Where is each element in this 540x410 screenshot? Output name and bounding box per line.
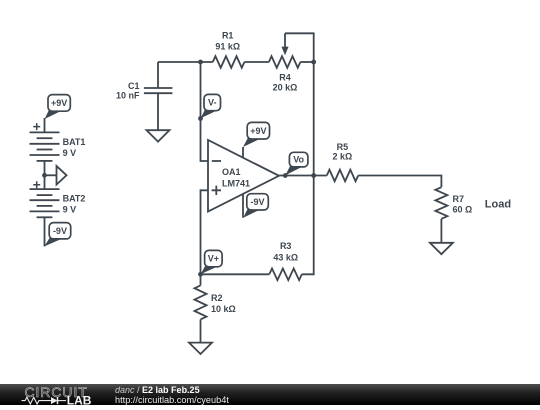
svg-text:BAT2: BAT2 bbox=[63, 194, 86, 204]
svg-text:R5: R5 bbox=[337, 142, 349, 152]
node top-left junction bbox=[198, 60, 203, 65]
wire R2 bottom to ground bbox=[200, 320, 202, 343]
label C1 value 10 nF bbox=[116, 90, 140, 100]
wire R4 wiper to right side bbox=[285, 33, 314, 62]
op-amp OA1 triangle bbox=[208, 140, 279, 212]
label C1 bbox=[128, 81, 140, 91]
svg-text:Vo: Vo bbox=[293, 155, 304, 165]
svg-text:R1: R1 bbox=[222, 31, 234, 41]
ground (under R7) bbox=[430, 243, 453, 254]
label OA1 bbox=[222, 167, 241, 177]
flag -9V (battery negative net) bbox=[44, 223, 70, 247]
label R4 bbox=[279, 73, 291, 83]
resistor R7 bbox=[435, 187, 447, 219]
wire op-amp output to R5 bbox=[279, 175, 327, 177]
label BAT1 value 9 V bbox=[63, 148, 77, 158]
svg-text:43 kΩ: 43 kΩ bbox=[273, 252, 298, 262]
wire top to C1 bbox=[157, 62, 159, 88]
svg-text:9 V: 9 V bbox=[63, 204, 77, 214]
resistor R2 bbox=[195, 285, 207, 319]
resistor R5 bbox=[327, 170, 358, 182]
svg-text:R2: R2 bbox=[211, 293, 223, 303]
op-amp inverting input symbol bbox=[212, 160, 221, 162]
wire C1 to ground bbox=[157, 93, 159, 130]
svg-text:91 kΩ: 91 kΩ bbox=[215, 41, 240, 51]
svg-text:10 nF: 10 nF bbox=[116, 90, 140, 100]
wire bottom horizontal (V+ node to R3) bbox=[201, 273, 270, 275]
capacitor C1 bbox=[144, 88, 173, 93]
wire R7 to ground bbox=[440, 219, 442, 243]
node V- tap bbox=[198, 116, 203, 121]
wire op-amp positive supply stub bbox=[242, 147, 244, 158]
svg-text:-9V: -9V bbox=[53, 226, 67, 236]
battery BAT1 bbox=[30, 123, 60, 161]
label LM741 bbox=[222, 178, 250, 188]
label R3 bbox=[280, 241, 292, 251]
op-amp non-inverting input symbol bbox=[212, 186, 221, 195]
label R2 value 10 k&#937; bbox=[211, 304, 236, 314]
label R1 value 91 k&#937; bbox=[215, 41, 240, 51]
footer credits line 1 bbox=[115, 385, 200, 395]
wire R4 to right junction bbox=[300, 61, 313, 63]
flag +9V (op-amp positive supply) bbox=[243, 122, 270, 147]
svg-text:60 Ω: 60 Ω bbox=[453, 204, 473, 214]
label BAT2 value 9 V bbox=[63, 204, 77, 214]
wire junction to ground bbox=[45, 174, 57, 176]
label R5 value 2 k&#937; bbox=[333, 151, 353, 161]
svg-text:2 kΩ: 2 kΩ bbox=[333, 151, 353, 161]
footer credits line 2 bbox=[115, 395, 229, 405]
node top-right junction bbox=[311, 60, 316, 65]
label R7 value 60 &#937; bbox=[453, 204, 473, 214]
resistor R1 bbox=[213, 56, 245, 68]
svg-text:R3: R3 bbox=[280, 241, 292, 251]
ground (under R2) bbox=[189, 343, 212, 354]
node feedback junction on output wire bbox=[311, 173, 316, 178]
battery BAT2 bbox=[30, 181, 60, 217]
wire op-amp negative supply stub bbox=[242, 194, 244, 218]
footer bar bbox=[0, 384, 540, 406]
label R5 bbox=[337, 142, 349, 152]
ground (under C1) bbox=[147, 130, 170, 141]
svg-text:Load: Load bbox=[485, 199, 511, 211]
flag V- bbox=[201, 94, 221, 118]
svg-text:R7: R7 bbox=[453, 194, 465, 204]
label R2 bbox=[211, 293, 223, 303]
wiper arrow of R4 bbox=[281, 33, 288, 55]
label R3 value 43 k&#937; bbox=[273, 252, 298, 262]
wire R1 to R4 bbox=[244, 61, 269, 63]
label BAT2 bbox=[63, 194, 86, 204]
node V+ junction bbox=[198, 272, 203, 277]
wire top horizontal (C1 to R1) bbox=[158, 61, 213, 63]
flag +9V (battery positive net) bbox=[45, 95, 71, 119]
label BAT1 bbox=[63, 137, 86, 147]
svg-text:LM741: LM741 bbox=[222, 178, 250, 188]
flag Vo bbox=[285, 152, 308, 175]
svg-text:+9V: +9V bbox=[250, 126, 266, 136]
flag -9V (op-amp negative supply) bbox=[243, 194, 268, 218]
wire battery BAT1 positive stub bbox=[44, 118, 46, 132]
svg-text:C1: C1 bbox=[128, 81, 140, 91]
CircuitLab logo bbox=[20, 384, 120, 405]
svg-text:V-: V- bbox=[208, 98, 217, 108]
label R1 bbox=[222, 31, 234, 41]
svg-text:V+: V+ bbox=[208, 254, 219, 264]
wire V- vertical (top junction to op-amp inverting input) bbox=[201, 62, 209, 161]
potentiometer R4 bbox=[269, 56, 300, 68]
wire R5 to R7 corner bbox=[358, 176, 441, 188]
wire BAT2 negative stub bbox=[44, 217, 46, 246]
label R4 value 20 k&#937; bbox=[273, 83, 298, 93]
logo resistor-diode wire bbox=[22, 397, 52, 404]
wire feedback vertical (R4 junction down to R3) bbox=[302, 62, 314, 274]
wire non-inverting input vertical (V+ node to op-amp) bbox=[201, 190, 209, 274]
label Load bbox=[485, 199, 511, 211]
node Vo tap bbox=[283, 173, 288, 178]
svg-text:R4: R4 bbox=[279, 73, 291, 83]
resistor R3 bbox=[269, 269, 302, 281]
svg-text:BAT1: BAT1 bbox=[63, 137, 86, 147]
svg-text:LAB: LAB bbox=[67, 393, 92, 405]
svg-text:OA1: OA1 bbox=[222, 167, 241, 177]
svg-text:9 V: 9 V bbox=[63, 148, 77, 158]
ground (between batteries, right-pointing) bbox=[57, 166, 67, 185]
svg-text:10 kΩ: 10 kΩ bbox=[211, 304, 236, 314]
svg-text:-9V: -9V bbox=[251, 197, 265, 207]
wire R2 to ground bbox=[200, 274, 202, 285]
wire BAT1 negative to junction bbox=[44, 161, 46, 175]
node junction between batteries bbox=[42, 173, 47, 178]
flag V+ bbox=[201, 250, 222, 274]
svg-text:+9V: +9V bbox=[51, 98, 67, 108]
label R7 bbox=[453, 194, 465, 204]
wire junction to BAT2 positive bbox=[44, 175, 46, 189]
svg-text:20 kΩ: 20 kΩ bbox=[273, 83, 298, 93]
